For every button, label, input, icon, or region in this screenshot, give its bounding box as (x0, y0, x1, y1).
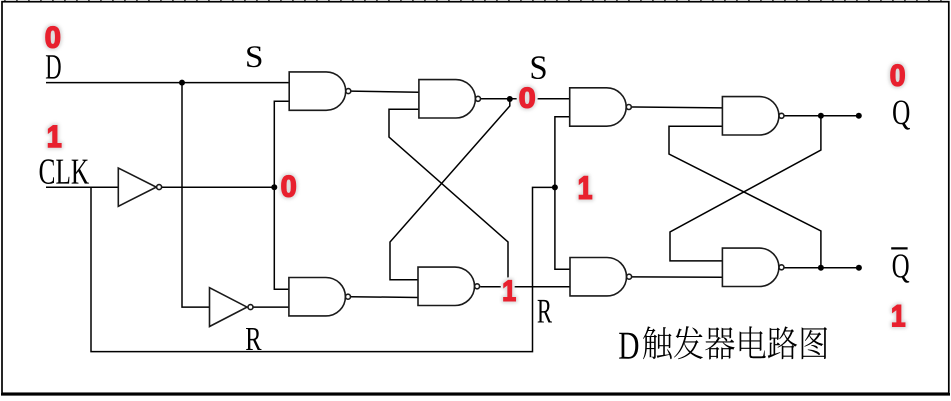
wire G3 output to G4 (351, 296, 418, 299)
wire G1 output to G2 (351, 91, 419, 92)
junction node D branch (179, 80, 185, 86)
label Q-bar (inverted output) (893, 254, 910, 282)
value 1 at R-prime node (504, 281, 515, 301)
wire G4 output to G6 (node R-prime) (480, 286, 570, 288)
junction node S-prime (507, 96, 513, 102)
wire D input (46, 82, 289, 84)
wire inverter U1 output (CP bar) (162, 186, 275, 188)
wire G2 output to G5 (node S-prime) (481, 98, 570, 100)
label S (slave set) (532, 56, 546, 79)
overline of Q-bar (891, 247, 907, 249)
junction node Q-bar (818, 265, 824, 271)
junction node CLK slave (552, 184, 558, 190)
NAND gate G5 (slave input top) (570, 88, 627, 126)
NAND gate G1 (S gate) (289, 72, 345, 110)
junction node Q (818, 113, 824, 119)
junction node CP-bar (271, 184, 277, 190)
value 1 at CLK input (49, 126, 61, 147)
wire CP-bar vertical to G1/G3 (274, 101, 289, 289)
wire G5 output to G7 (632, 106, 723, 109)
NAND gate G4 (master latch bottom) (418, 267, 475, 305)
wire CLK vertical to G5/G6 (555, 117, 570, 269)
wire D to inverter U2 branch (182, 83, 210, 308)
value 0 at D input (46, 27, 60, 48)
NAND gate G6 (slave input bottom) (570, 258, 627, 296)
NAND gate G8 (slave latch bottom, Q bar) (722, 248, 779, 286)
wire CLK input (46, 186, 118, 188)
value 0 at S-prime node (520, 88, 535, 108)
label D (data input) (46, 55, 61, 78)
terminal dot Q (856, 113, 862, 119)
wire G2 lower input from G4 output (cross coupling) (389, 109, 508, 286)
wire G7 lower input from G8 output (cross coupling) (669, 126, 821, 267)
wire G6 output to G8 (632, 276, 723, 278)
wire Q output (784, 115, 859, 117)
wire Q-bar output (784, 267, 859, 269)
title: D触发器电路图 (619, 326, 827, 359)
wire inverter U2 output (D bar) (253, 306, 289, 308)
value 0 at CP-bar node (282, 176, 296, 197)
label R (master reset) (246, 328, 262, 350)
label R (slave reset) (538, 300, 552, 323)
terminal dot Q-bar (856, 265, 862, 271)
wire G4 upper input from G2 output (cross coupling) (390, 99, 510, 280)
value 1 at CLK slave node (579, 177, 591, 199)
value 0 at Q output (891, 65, 904, 86)
value 1 at Q-bar output (893, 305, 905, 326)
tick marks artifact along top edge (4, 0, 951, 2)
wire CLK to slave latch (bottom feedback) (91, 187, 555, 351)
NAND gate G3 (R gate) (289, 278, 346, 316)
label CLK (clock input) (40, 159, 89, 184)
label Q (output) (893, 101, 910, 130)
inverter U1 (CLK) (118, 168, 156, 206)
wire G8 upper input from G7 output (cross coupling) (670, 116, 821, 261)
inverter U2 (D bar) (210, 288, 248, 327)
NAND gate G2 (master latch top) (419, 80, 476, 118)
label S (master set) (247, 46, 261, 67)
NAND gate G7 (slave latch top, Q) (722, 97, 779, 135)
